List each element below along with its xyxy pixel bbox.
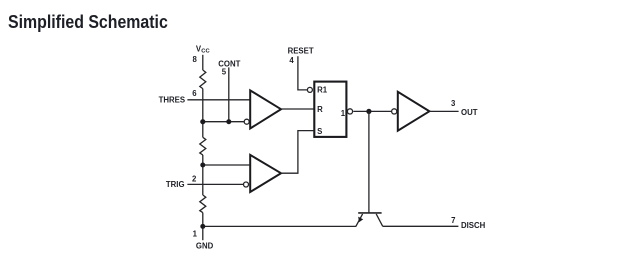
wire DISCH [383, 225, 459, 227]
net VCC label [196, 44, 211, 54]
transistor Q1 base bar [358, 212, 381, 214]
wire U1 output to latch R [281, 108, 314, 110]
transistor Q1 collector [376, 214, 383, 226]
svg-text:OUT: OUT [461, 108, 478, 117]
wire CONT [228, 67, 230, 121]
svg-text:7: 7 [451, 216, 455, 225]
svg-text:TRIG: TRIG [166, 180, 185, 189]
wire latch output to buffer [353, 110, 391, 112]
inverter bubble latch output [347, 109, 352, 114]
svg-text:DISCH: DISCH [461, 221, 486, 230]
wire node Q down to transistor Q1 base [368, 111, 370, 213]
wire TRIG to comparator U2 inverting input [187, 183, 243, 185]
svg-text:1: 1 [193, 230, 198, 239]
svg-text:2: 2 [192, 175, 197, 184]
junction node A on rail [200, 119, 205, 124]
resistor RB [200, 137, 206, 155]
wire GND rail [203, 225, 356, 227]
wire RESET [298, 56, 307, 90]
wire rail RC to GND [202, 213, 204, 241]
inverter bubble U2 input [244, 182, 249, 187]
latch U3 box [314, 82, 346, 137]
svg-text:3: 3 [451, 99, 456, 108]
wire node B to comparator U2 non-inverting input [203, 164, 250, 166]
junction node GND [200, 224, 205, 229]
wire OUT [429, 110, 458, 112]
svg-text:8: 8 [193, 55, 198, 64]
resistor RA [200, 70, 206, 89]
wire U2 output to latch S [281, 131, 315, 174]
wire VCC rail top segment [202, 55, 204, 70]
output buffer U4 [398, 92, 430, 131]
comparator U2 [250, 155, 281, 192]
svg-text:R: R [317, 105, 323, 114]
svg-text:1: 1 [341, 109, 346, 118]
svg-text:4: 4 [289, 56, 294, 65]
junction node Q [366, 109, 371, 114]
inverter bubble latch R1 input [307, 87, 312, 92]
junction node B [200, 163, 205, 168]
inverter bubble buffer input [392, 109, 397, 114]
junction node A on CONT [226, 119, 231, 124]
wire THRES to comparator U1 [187, 99, 250, 101]
svg-text:THRES: THRES [159, 96, 185, 105]
svg-text:Simplified Schematic: Simplified Schematic [8, 11, 168, 32]
svg-text:5: 5 [222, 68, 227, 77]
svg-text:RESET: RESET [288, 47, 314, 56]
resistor RC [200, 195, 206, 213]
svg-text:6: 6 [192, 89, 197, 98]
svg-text:CC: CC [201, 49, 210, 55]
svg-text:S: S [317, 127, 322, 136]
svg-text:GND: GND [196, 241, 214, 250]
wire rail RB to node B [202, 155, 204, 195]
inverter bubble U1 input [244, 119, 249, 124]
transistor Q1 emitter [356, 214, 363, 226]
wire rail RA to node A [202, 89, 204, 138]
svg-text:R1: R1 [317, 85, 328, 94]
wire node A to comparator U1 inverting input [203, 121, 244, 123]
comparator U1 [250, 90, 281, 128]
transistor Q1 emitter arrow [358, 217, 363, 223]
